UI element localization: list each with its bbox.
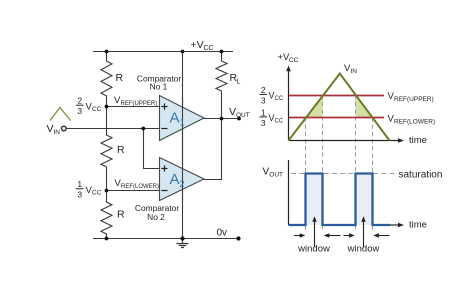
svg-text:time: time: [409, 135, 427, 146]
svg-text:CC: CC: [275, 96, 284, 102]
svg-text:No 2: No 2: [147, 212, 165, 222]
svg-text:3: 3: [261, 118, 266, 128]
svg-text:1: 1: [180, 118, 185, 128]
svg-text:No 1: No 1: [150, 82, 168, 92]
svg-text:R: R: [116, 72, 124, 84]
svg-text:R: R: [117, 209, 125, 221]
svg-text:CC: CC: [275, 118, 284, 124]
svg-text:+V: +V: [191, 39, 204, 51]
svg-text:1: 1: [77, 179, 82, 189]
svg-text:REF(UPPER): REF(UPPER): [121, 101, 158, 107]
svg-text:0v: 0v: [217, 227, 228, 238]
svg-text:2: 2: [77, 96, 82, 106]
svg-text:A: A: [170, 171, 180, 188]
svg-text:REF(LOWER): REF(LOWER): [121, 184, 159, 190]
svg-text:L: L: [237, 79, 241, 86]
svg-text:window: window: [347, 244, 380, 255]
svg-text:IN: IN: [351, 68, 358, 75]
svg-text:window: window: [297, 244, 330, 255]
svg-text:OUT: OUT: [269, 171, 283, 178]
svg-text:time: time: [409, 220, 427, 231]
svg-text:IN: IN: [54, 129, 61, 136]
svg-text:OUT: OUT: [236, 112, 250, 119]
svg-text:saturation: saturation: [399, 170, 443, 181]
svg-text:V: V: [229, 106, 236, 118]
svg-text:3: 3: [77, 190, 82, 200]
svg-text:3: 3: [261, 95, 266, 105]
svg-text:CC: CC: [289, 57, 299, 64]
svg-text:CC: CC: [92, 106, 102, 113]
svg-text:2: 2: [180, 179, 185, 189]
svg-text:1: 1: [261, 107, 266, 117]
svg-text:REF(UPPER): REF(UPPER): [394, 96, 434, 103]
svg-text:CC: CC: [204, 45, 214, 52]
svg-text:CC: CC: [92, 190, 102, 197]
svg-text:A: A: [170, 110, 180, 127]
svg-text:3: 3: [77, 106, 82, 116]
svg-text:V: V: [47, 123, 54, 135]
svg-text:R: R: [117, 144, 125, 156]
svg-text:REF(LOWER): REF(LOWER): [394, 118, 435, 125]
svg-text:2: 2: [261, 85, 266, 95]
